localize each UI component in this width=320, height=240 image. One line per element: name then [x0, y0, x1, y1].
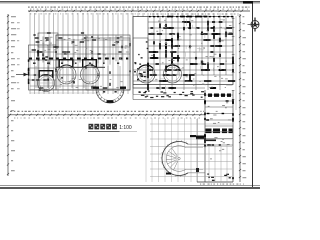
bottom dimension line — [8, 114, 205, 116]
right dimension inner column — [232, 16, 236, 110]
svg-text:1:100: 1:100 — [119, 125, 132, 131]
right dimension line — [239, 14, 241, 182]
wing black segments — [196, 93, 234, 181]
column grid lines — [30, 13, 238, 94]
left band bay headers — [39, 59, 98, 78]
circular court — [161, 135, 205, 177]
top dimension text upper — [28, 7, 250, 8]
border top line — [0, 2, 260, 3]
border right line — [252, 2, 254, 187]
left band black wall segments — [28, 32, 131, 90]
right band black wall segments — [134, 16, 235, 98]
title block — [88, 124, 137, 132]
left dimension line — [7, 14, 9, 176]
semicircular bay — [96, 89, 124, 103]
top dimension text lower-left — [30, 13, 145, 16]
entrance arrow — [16, 73, 28, 77]
left unit black segments — [28, 50, 54, 89]
right dimension text — [243, 16, 247, 178]
left band room text — [40, 36, 129, 88]
north arrow symbol — [248, 18, 260, 32]
wing room text — [208, 102, 231, 159]
plaza vertical grid lines — [146, 118, 198, 182]
right band room text — [151, 20, 232, 89]
left band facade piers — [29, 58, 128, 68]
wing bottom mini dimension — [200, 183, 244, 186]
wing walls — [197, 90, 233, 182]
right band walls — [133, 17, 233, 100]
top dimension line — [28, 10, 250, 12]
left dimension text — [11, 16, 20, 171]
semicircular bay details — [93, 87, 126, 103]
plaza paving grid — [150, 124, 232, 182]
border bottom double line — [0, 186, 260, 188]
left band walls — [29, 33, 131, 90]
bottom dimension text upper — [10, 111, 204, 112]
left band porch line — [30, 86, 96, 93]
left band round bays — [38, 65, 100, 92]
right band sub-partitions — [160, 19, 232, 92]
bottom dimension text lower — [14, 117, 200, 120]
right band round bays — [137, 65, 182, 83]
top dimension text upper2 — [30, 8, 248, 11]
border top-right heavy mark — [243, 1, 253, 4]
top dimension text lower — [150, 13, 236, 16]
